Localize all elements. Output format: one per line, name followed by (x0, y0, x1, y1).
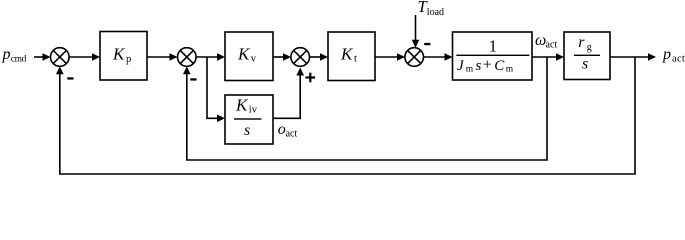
wire outer feedback from p_act down and back to S1 (56, 57, 635, 174)
svg-text:act: act (546, 40, 558, 51)
wire rg/s to p_act output (610, 53, 656, 61)
label Kv (237, 45, 257, 65)
wire T_load down to summing junction S4 (412, 15, 420, 48)
svg-text:act: act (672, 54, 685, 65)
summing junction S1 (51, 48, 70, 67)
svg-text:m: m (506, 65, 514, 75)
wire S1 to block Kp (69, 53, 100, 61)
svg-text:C: C (494, 58, 505, 74)
wire S3 to block Kt (310, 53, 329, 61)
node o_act label (278, 121, 298, 140)
svg-text:p: p (126, 54, 131, 65)
wire S2 to block Kv (196, 53, 225, 61)
wire inner feedback from omega_act down and back to S2 (183, 57, 547, 160)
wire Kiv/s output up to summing junction S3 (273, 68, 304, 119)
svg-text:g: g (587, 42, 592, 53)
summing junction S4 (405, 48, 424, 67)
node p_cmd input label (2, 46, 27, 65)
svg-text:p: p (2, 46, 11, 63)
svg-text:t: t (354, 53, 357, 64)
svg-text:s: s (244, 122, 250, 139)
svg-text:load: load (427, 7, 444, 18)
node p_act output label (662, 46, 685, 65)
wire Kt to summing junction S4 (375, 53, 405, 61)
wire branch S2 output down to Kiv/s input (207, 57, 225, 122)
block Kt (328, 32, 375, 81)
label 1 over Jm s + Cm (456, 36, 529, 74)
label rg over s (574, 34, 600, 73)
block rg/s (564, 32, 610, 80)
minus sign at S4 input (424, 43, 430, 45)
block Kiv/s (225, 95, 273, 144)
svg-text:1: 1 (489, 36, 497, 55)
svg-text:J: J (457, 58, 465, 74)
node T_load input label (418, 0, 445, 18)
svg-text:v: v (251, 53, 257, 64)
block Kp (100, 32, 147, 81)
svg-text:K: K (237, 45, 251, 64)
svg-text:K: K (235, 95, 249, 114)
label Kt (340, 45, 357, 65)
svg-text:r: r (578, 34, 585, 51)
svg-text:p: p (662, 46, 671, 63)
svg-text:s: s (476, 58, 482, 74)
svg-text:m: m (466, 65, 474, 75)
label Kiv over s (234, 95, 262, 139)
minus sign at S2 feedback input (190, 78, 196, 80)
summing junction S3 (291, 48, 310, 67)
block 1/(Jm s + Cm) (453, 32, 533, 80)
block Kv (225, 32, 273, 81)
svg-text:cmd: cmd (11, 54, 27, 64)
wire Kp to summing junction S2 (147, 53, 178, 61)
plus sign at S3 input (306, 73, 316, 83)
svg-text:o: o (278, 121, 286, 138)
minus sign at S1 feedback input (67, 77, 73, 79)
wire Kv to summing junction S3 (273, 53, 291, 61)
wire motor block to rg/s block (532, 53, 564, 61)
svg-text:iv: iv (249, 104, 258, 115)
svg-text:+: + (483, 57, 492, 74)
svg-text:K: K (340, 45, 354, 64)
wire p_cmd to summing junction S1 (34, 53, 51, 61)
label Kp (112, 45, 131, 65)
svg-text:act: act (286, 129, 298, 140)
wire S4 to motor block (424, 53, 453, 61)
node omega_act label (535, 32, 557, 50)
svg-text:K: K (112, 45, 126, 64)
svg-text:s: s (582, 56, 588, 73)
summing junction S2 (178, 48, 197, 67)
